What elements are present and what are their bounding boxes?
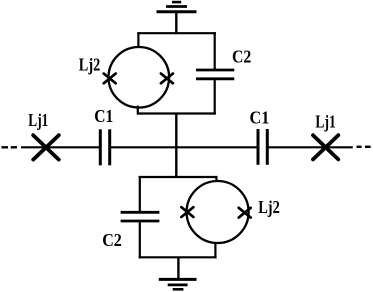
wire: right dashed lead bbox=[357, 146, 371, 148]
wire: main bus left segment bbox=[21, 146, 99, 148]
capacitor C2 bottom bbox=[121, 212, 160, 221]
svg-text:C1: C1 bbox=[94, 106, 113, 126]
junction X on bottom circle, right bbox=[239, 208, 251, 218]
wire: top loop bottom line bbox=[137, 112, 216, 114]
wire: bottom loop top line bbox=[139, 176, 218, 178]
wire: bottom loop left side lower bbox=[139, 221, 141, 258]
svg-text:Lj2: Lj2 bbox=[258, 197, 280, 217]
wire: main bus center segment bbox=[111, 146, 257, 148]
capacitor C1 left bbox=[100, 129, 109, 165]
junction X on top circle, left bbox=[104, 74, 116, 84]
wire: top loop top line bbox=[137, 32, 216, 34]
wire: bottom loop right upper stub bbox=[215, 176, 217, 182]
SQUID loop top (circle) bbox=[109, 47, 170, 108]
svg-text:C1: C1 bbox=[250, 108, 270, 128]
wire: center stem bbox=[175, 114, 177, 178]
svg-text:Lj2: Lj2 bbox=[79, 54, 101, 74]
Josephson junction Lj1 right (X symbol) bbox=[313, 135, 338, 159]
wire: left dashed lead bbox=[2, 146, 18, 148]
ground (bottom) bbox=[159, 257, 197, 289]
wire: bottom loop bottom line bbox=[139, 256, 217, 258]
svg-text:C2: C2 bbox=[102, 230, 122, 250]
junction X on bottom circle, left bbox=[181, 207, 193, 217]
wire: top loop right side lower bbox=[214, 79, 216, 115]
wire: bottom loop left side upper bbox=[139, 176, 141, 212]
svg-text:Lj1: Lj1 bbox=[28, 110, 48, 130]
capacitor C1 right bbox=[258, 129, 267, 165]
wire: bottom loop right lower stub bbox=[214, 242, 216, 258]
junction X on top circle, right bbox=[161, 74, 173, 84]
capacitor C2 top bbox=[196, 70, 234, 79]
SQUID loop bottom (circle) bbox=[187, 181, 249, 243]
wire: top loop right side upper bbox=[214, 32, 216, 70]
wire: main bus right segment bbox=[269, 146, 353, 148]
wire: top loop left lower stub bbox=[137, 106, 139, 115]
svg-text:Lj1: Lj1 bbox=[315, 112, 335, 132]
svg-text:C2: C2 bbox=[232, 46, 251, 66]
Josephson junction Lj1 left (X symbol) bbox=[33, 135, 59, 159]
ground (top) bbox=[157, 2, 197, 34]
wire: top loop left upper stub bbox=[137, 32, 139, 47]
